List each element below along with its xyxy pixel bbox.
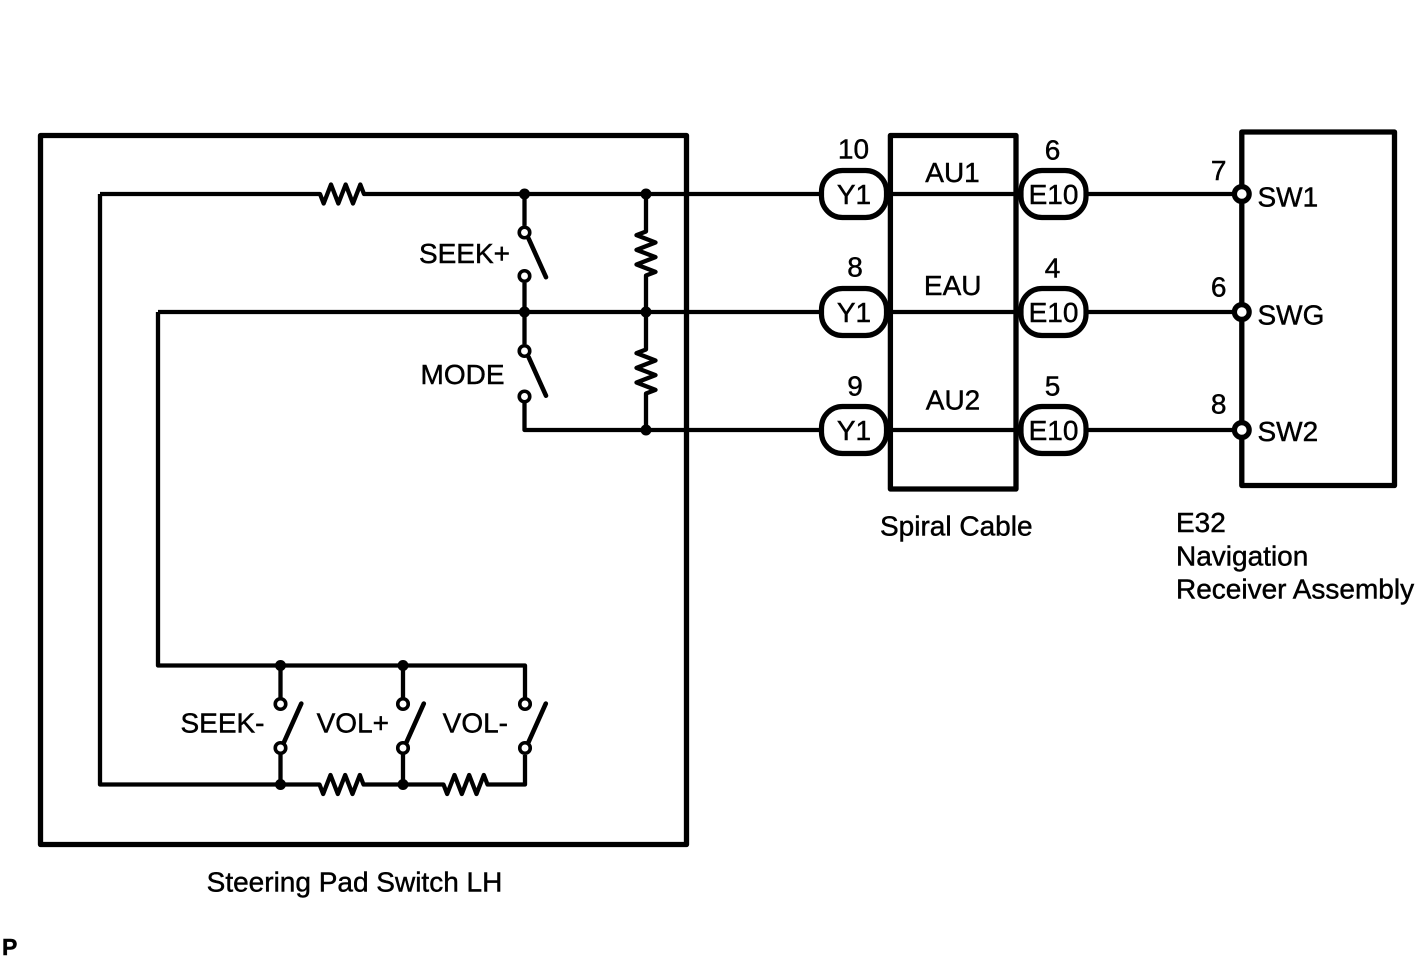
svg-text:AU2: AU2	[926, 385, 980, 416]
connector Y1 pin 9 oval	[822, 407, 887, 454]
wire net SW1: top row + left vertical + bottom bus with resistors	[100, 185, 819, 795]
svg-text:VOL-: VOL-	[443, 707, 508, 738]
switch SEEK+ stub	[522, 194, 526, 226]
switch VOL- blade	[529, 704, 546, 743]
svg-text:Navigation: Navigation	[1176, 541, 1308, 572]
svg-text:SEEK-: SEEK-	[180, 707, 264, 738]
svg-text:EAU: EAU	[924, 270, 982, 301]
switch SEEK- stubs	[278, 666, 282, 785]
svg-text:7: 7	[1211, 155, 1227, 186]
connector Y1 pin 8 oval	[822, 289, 887, 336]
wire E10 to E32 pins	[1088, 194, 1233, 430]
node junction row2-R4/R5	[641, 307, 652, 318]
switch SEEK- blade	[284, 704, 301, 743]
svg-text:Steering Pad Switch LH: Steering Pad Switch LH	[207, 867, 503, 898]
svg-text:SW1: SW1	[1258, 182, 1319, 213]
pin 8 terminal SW2	[1234, 423, 1249, 438]
switch VOL+ blade	[407, 704, 424, 743]
switch MODE contacts	[519, 346, 530, 357]
svg-text:4: 4	[1045, 253, 1061, 284]
box E32 Navigation Receiver Assembly	[1242, 132, 1395, 486]
pin 7 terminal SW1	[1234, 187, 1249, 202]
svg-text:Receiver Assembly: Receiver Assembly	[1176, 574, 1414, 605]
box Steering Pad Switch LH	[41, 136, 687, 845]
switch SEEK+ lower stub	[522, 283, 526, 312]
switch VOL+ stubs	[401, 666, 405, 785]
box Spiral Cable	[890, 136, 1016, 490]
switch MODE blade	[529, 357, 546, 396]
svg-text:MODE: MODE	[421, 359, 505, 390]
svg-text:8: 8	[1211, 389, 1227, 420]
connector E10 pin 5 oval	[1021, 407, 1086, 454]
switch VOL- contacts	[520, 699, 531, 710]
connector E10 pin 4 oval	[1021, 289, 1086, 336]
wire net SWG: middle row + left vertical + switch top bus	[158, 312, 819, 698]
switch VOL+ contacts	[398, 699, 409, 710]
svg-text:9: 9	[847, 371, 863, 402]
resistor R4 vertical between row1-row2	[637, 194, 656, 312]
svg-text:Y1: Y1	[837, 297, 871, 328]
node junction topbus-SEEK-	[275, 660, 286, 671]
switch SEEK- contacts	[275, 699, 286, 710]
svg-text:E10: E10	[1029, 179, 1079, 210]
svg-text:Y1: Y1	[837, 179, 871, 210]
switch MODE stub	[522, 312, 526, 344]
connector E10 pin 6 oval	[1021, 171, 1086, 218]
node junction row1-SEEK+	[519, 189, 530, 200]
svg-text:5: 5	[1045, 371, 1061, 402]
svg-text:Spiral Cable: Spiral Cable	[880, 511, 1033, 542]
svg-text:AU1: AU1	[925, 157, 979, 188]
svg-text:10: 10	[838, 134, 869, 165]
svg-text:SWG: SWG	[1258, 300, 1325, 331]
node junction topbus-VOL+	[398, 660, 409, 671]
node junction row2-SEEK+/MODE	[519, 307, 530, 318]
svg-text:VOL+: VOL+	[317, 707, 389, 738]
node junction bottombus-VOL+	[398, 779, 409, 790]
svg-text:Y1: Y1	[837, 415, 871, 446]
wire rows inside spiral cable	[889, 194, 1019, 430]
svg-text:SEEK+: SEEK+	[419, 238, 510, 269]
svg-text:8: 8	[847, 252, 863, 283]
svg-text:6: 6	[1211, 272, 1227, 303]
svg-text:SW2: SW2	[1258, 416, 1319, 447]
svg-text:E10: E10	[1029, 415, 1079, 446]
pin 6 terminal SWG	[1234, 305, 1249, 320]
node junction bottombus-SEEK-	[275, 779, 286, 790]
switch SEEK+ blade	[529, 239, 546, 278]
svg-text:E32: E32	[1176, 507, 1226, 538]
svg-text:E10: E10	[1029, 297, 1079, 328]
node junction row3-R5	[641, 425, 652, 436]
node junction row1-R4	[641, 189, 652, 200]
svg-text:P: P	[2, 934, 17, 959]
switch SEEK+ contacts	[519, 227, 530, 238]
resistor R5 vertical between row2-row3	[637, 312, 656, 430]
wire net SW2: bottom row from MODE switch	[525, 402, 820, 430]
connector Y1 pin 10 oval	[822, 171, 887, 218]
svg-text:6: 6	[1045, 135, 1061, 166]
